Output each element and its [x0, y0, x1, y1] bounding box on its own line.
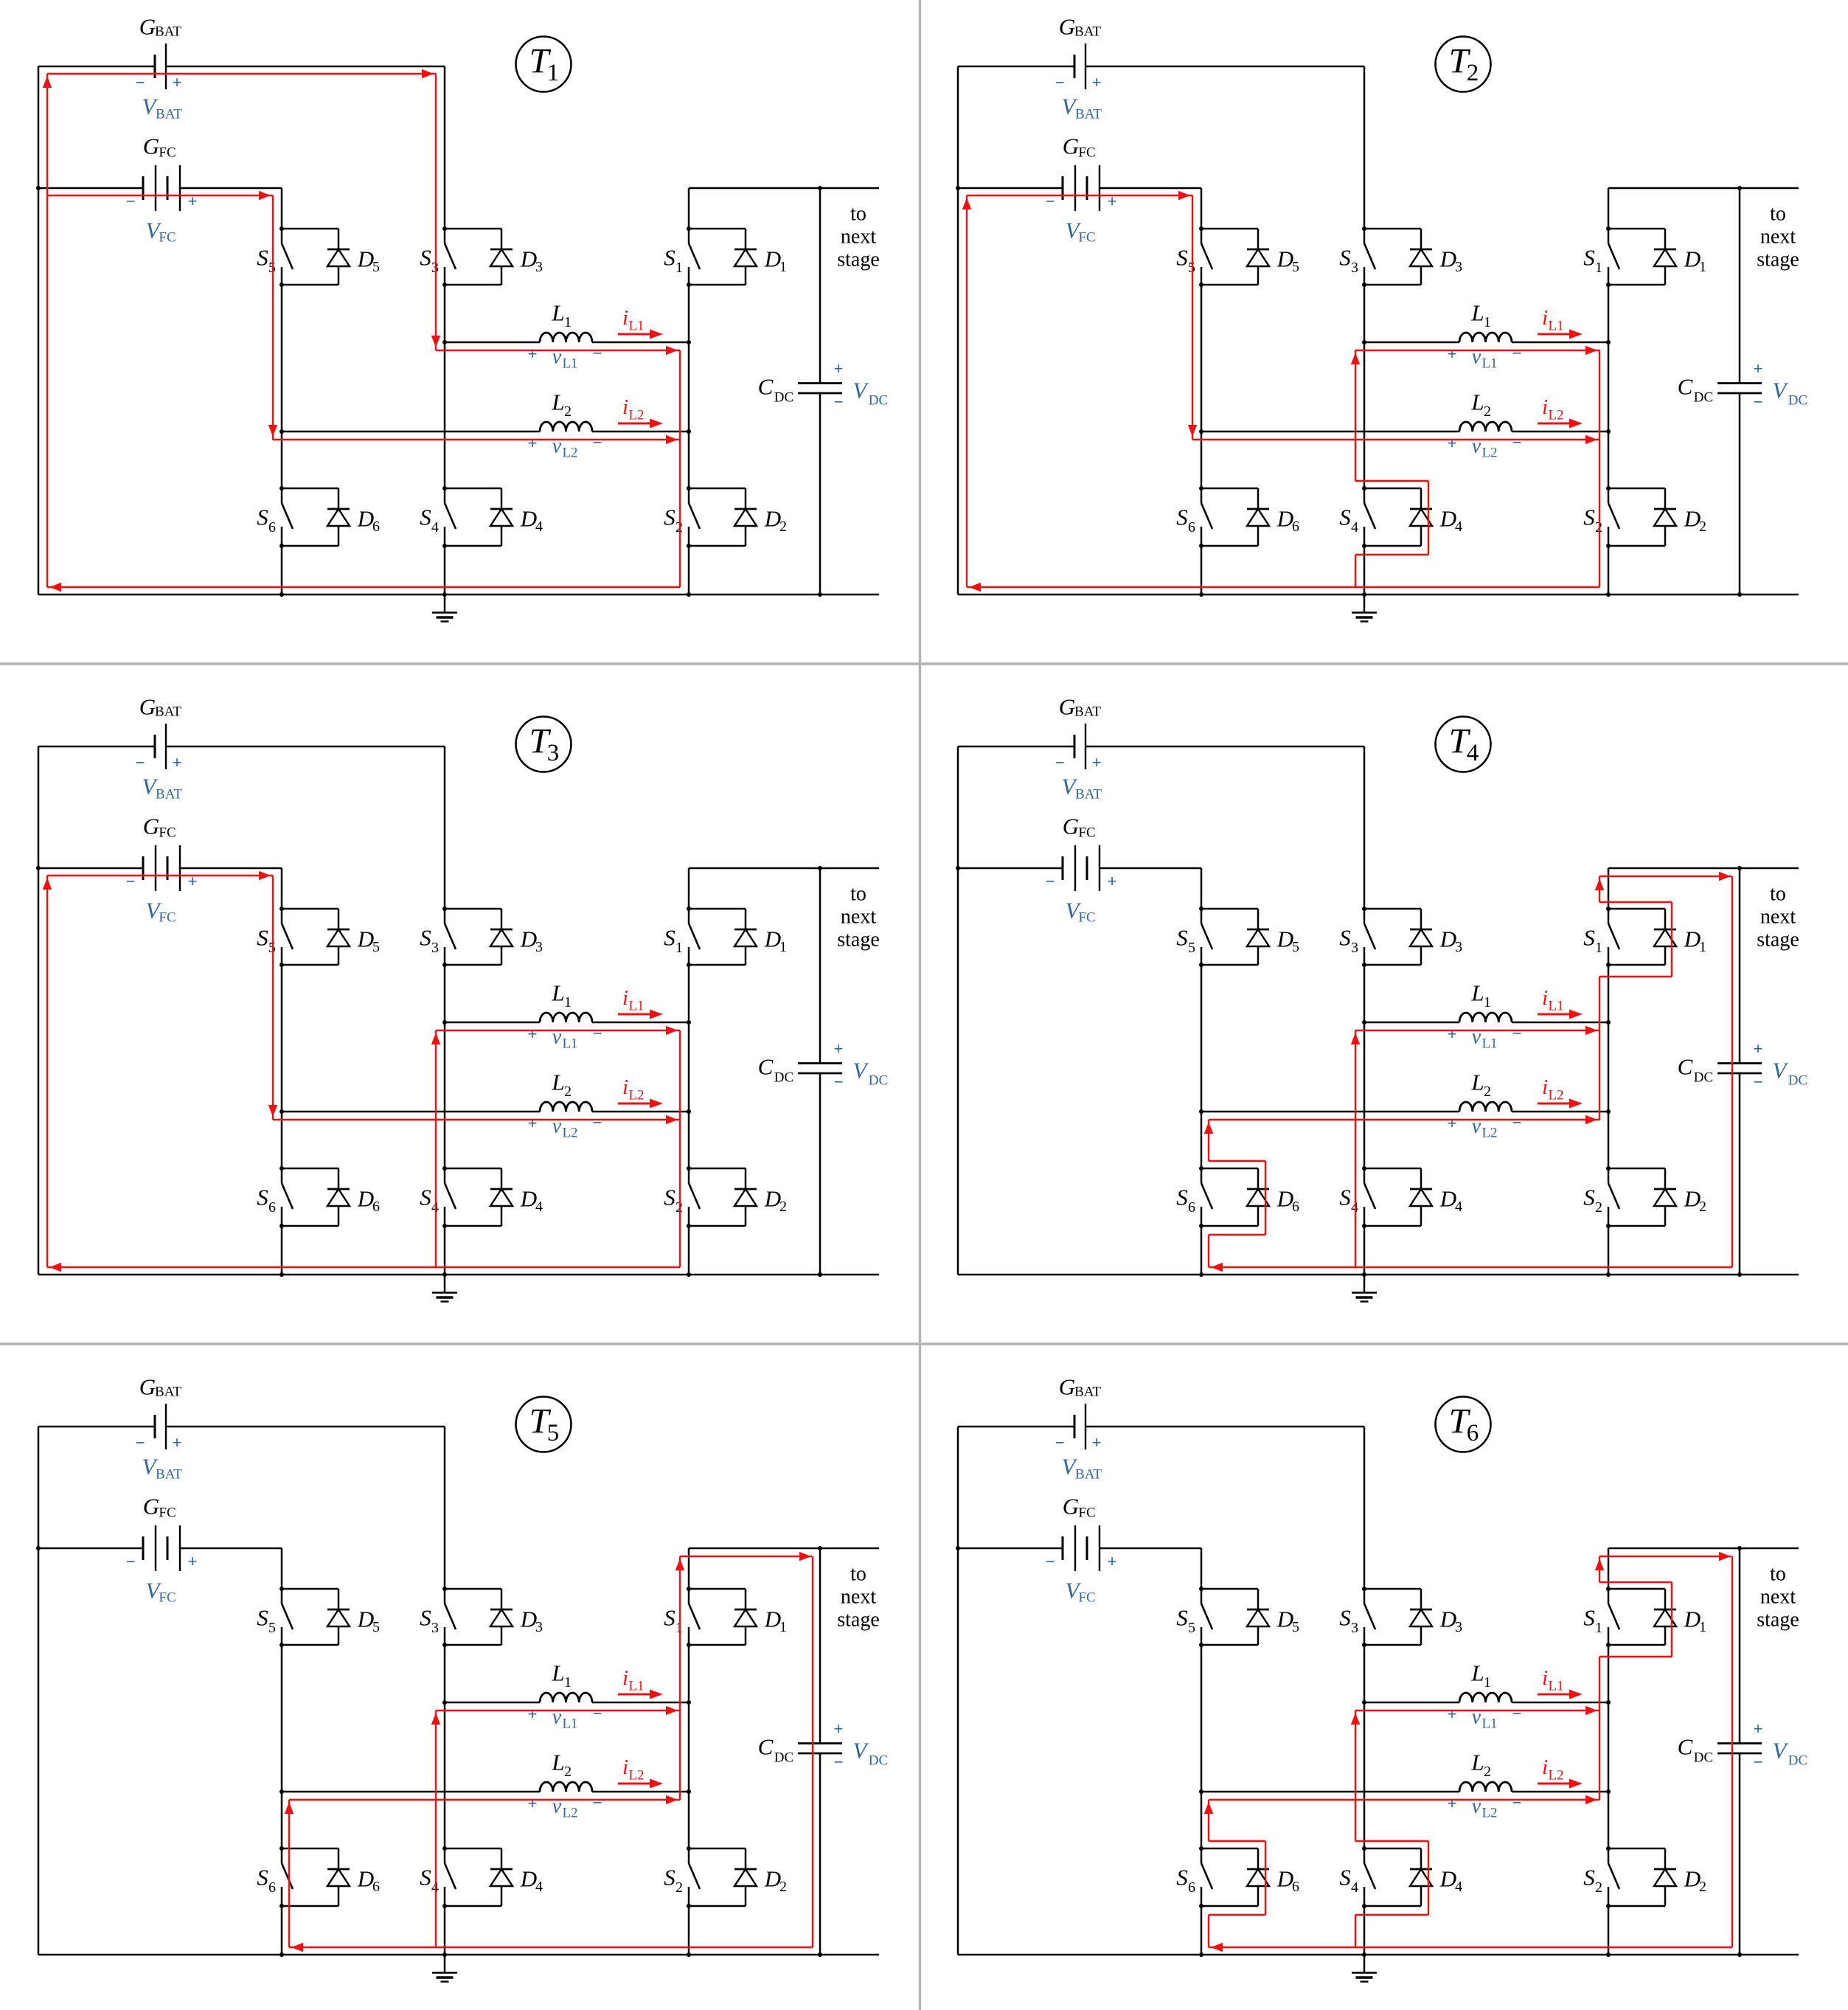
svg-text:5: 5 [547, 1420, 560, 1446]
svg-text:2: 2 [1467, 60, 1479, 86]
svg-text:4: 4 [1467, 740, 1479, 766]
svg-text:6: 6 [1467, 1420, 1479, 1446]
svg-text:1: 1 [547, 60, 560, 86]
svg-text:3: 3 [547, 740, 560, 766]
